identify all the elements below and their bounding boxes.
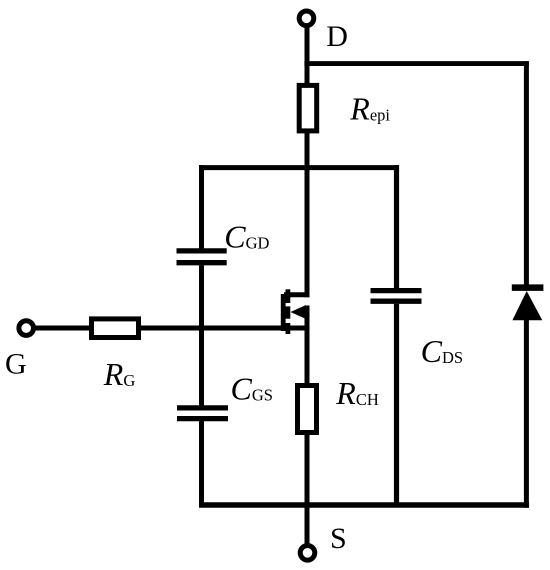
diode D_body xyxy=(512,288,544,321)
wire top junction horizontal xyxy=(304,61,528,66)
wire gate line G to MOSFET source column xyxy=(30,326,309,331)
resistor R_G xyxy=(92,319,139,338)
capacitor C_GS xyxy=(177,408,228,419)
wire D terminal to R_epi xyxy=(305,25,310,86)
wire R_epi to MOSFET drain xyxy=(305,131,310,297)
terminal G xyxy=(19,321,34,336)
cathode bar xyxy=(512,284,544,291)
wire left branch lower (C_GS to bottom rail) xyxy=(199,421,204,505)
wire left branch middle (C_GD to C_GS) xyxy=(199,265,204,405)
channel segment source xyxy=(285,323,290,334)
body arrow xyxy=(291,305,307,319)
wire diode branch lower xyxy=(524,318,529,508)
anode triangle xyxy=(512,291,542,320)
wire bottom rail xyxy=(199,502,529,508)
capacitor C_DS xyxy=(371,291,422,302)
wire left branch upper (top to C_GD) xyxy=(199,165,204,248)
terminal D xyxy=(299,11,314,26)
resistor R_CH xyxy=(298,386,317,433)
resistor R_epi xyxy=(299,85,317,130)
wire diode branch upper xyxy=(524,61,529,288)
capacitor C_GD xyxy=(177,251,227,263)
gate bar xyxy=(281,294,286,331)
drain stub xyxy=(284,292,309,297)
wire MOSFET to R_CH xyxy=(305,306,310,387)
wire inner-rect top xyxy=(199,165,399,170)
svg-text:S: S xyxy=(330,522,347,555)
wire right branch upper (top to C_DS) xyxy=(394,165,399,288)
wire R_CH to S terminal xyxy=(305,433,310,546)
transistor Q1 xyxy=(283,289,309,334)
svg-text:D: D xyxy=(326,20,348,53)
svg-text:G: G xyxy=(5,348,27,381)
wire right branch lower (C_DS to bottom rail) xyxy=(394,304,399,505)
terminal S xyxy=(300,546,315,561)
channel segment body xyxy=(285,306,290,318)
channel segment drain xyxy=(285,289,290,303)
